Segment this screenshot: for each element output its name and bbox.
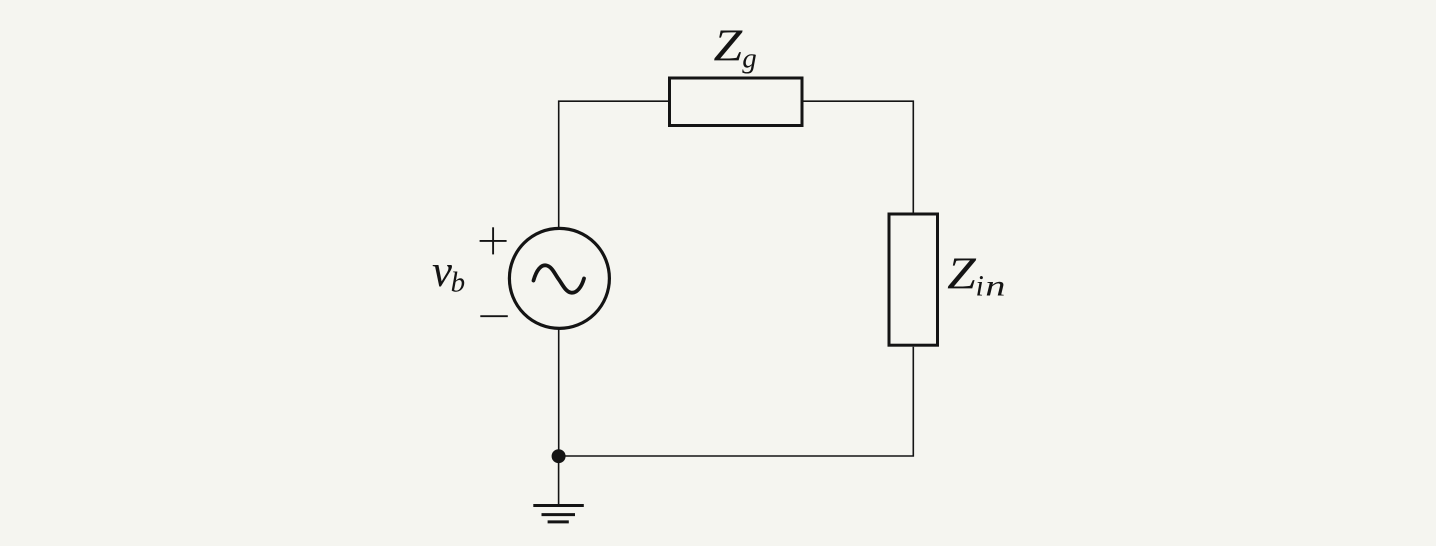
svg-text:g: g [742, 42, 757, 74]
wire from source - terminal down to node [558, 330, 560, 457]
plus sign [480, 227, 507, 254]
impedance Zin (rectangle) [889, 214, 938, 345]
ground symbol [533, 506, 584, 522]
label Z_in [947, 249, 1005, 302]
label Z_g [714, 21, 757, 74]
svg-text:i: i [976, 270, 984, 303]
resistor Zg [670, 78, 803, 126]
label v_b [432, 246, 465, 299]
node junction dot [552, 449, 566, 463]
wire from Zin bottom to bottom-right corner and left to node [559, 347, 914, 456]
minus sign [480, 315, 508, 317]
svg-text:v: v [432, 246, 452, 296]
wire from source + terminal up to top-left corner and right to Zg [559, 101, 668, 228]
svg-text:Z: Z [947, 249, 977, 298]
AC source U1 circle [509, 228, 609, 328]
wire from Zg right to top-right corner and down to Zin top [804, 101, 914, 212]
svg-text:b: b [451, 267, 466, 299]
ground stub wire [558, 456, 560, 506]
svg-text:n: n [985, 269, 1005, 303]
sine symbol inside source [534, 265, 585, 292]
svg-text:Z: Z [714, 21, 744, 70]
